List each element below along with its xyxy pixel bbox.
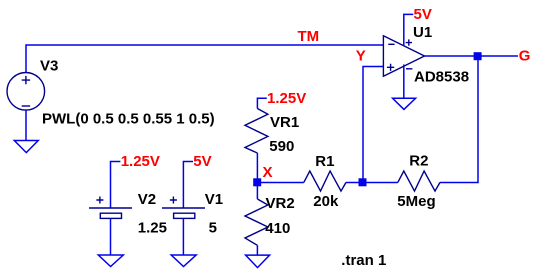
op-amp U1 triangle [383,36,424,76]
svg-text:TM: TM [298,28,320,45]
ground below U1 [393,98,416,109]
svg-text:5V: 5V [193,153,211,170]
value AD8538 [414,69,469,86]
battery V1 [162,197,205,219]
wire Y net: U1 + input down to R1/R2 junction [363,67,383,183]
junction at output node [474,52,482,60]
net label Y [356,48,366,65]
ground below VR2 [246,255,270,268]
label VR1 [270,114,299,131]
resistor R1 zigzag [304,171,346,191]
svg-text:20k: 20k [313,193,339,210]
wire V2 bottom to ground [110,218,112,255]
wire R1 to junction [346,182,363,184]
resistor VR1 zigzag [245,109,268,154]
label V3 [40,57,58,74]
net label 1.25V (VR1 top) [267,90,306,107]
svg-text:R1: R1 [315,153,334,170]
U1 V- mark [406,68,412,70]
U1 non-inverting input mark [387,64,394,71]
svg-text:410: 410 [265,220,290,237]
spice directive .tran 1 [341,252,386,269]
U1 V+ mark [406,39,412,45]
label R1 [315,153,334,170]
svg-text:V3: V3 [40,57,58,74]
value 20k [313,193,339,210]
svg-text:5V: 5V [414,6,432,23]
label V1 [205,191,223,208]
net label 5V [414,6,432,23]
net label 1.25V (V2 top) [121,153,160,170]
svg-text:U1: U1 [413,24,432,41]
ground below V3 [14,141,38,153]
svg-text:R2: R2 [409,153,428,170]
battery V2 [89,197,132,219]
junction node X [253,178,261,186]
label VR2 [266,195,295,212]
svg-text:1.25V: 1.25V [121,153,160,170]
ground below V2 [98,255,123,267]
svg-text:VR2: VR2 [266,195,295,212]
U1 inverting input mark [388,43,394,45]
wire V1 bottom to ground [182,218,184,255]
value PWL(0 0.5 0.5 0.55 1 0.5) [42,111,215,128]
label R2 [409,153,428,170]
label V2 [138,191,156,208]
net flag 1.25V stub above V2 [111,162,121,209]
svg-text:5: 5 [209,220,217,237]
svg-text:PWL(0 0.5 0.5 0.55 1 0.5): PWL(0 0.5 0.5 0.55 1 0.5) [42,111,215,128]
svg-text:.tran 1: .tran 1 [341,252,386,269]
net flag 1.25V stub above VR1 [257,98,266,108]
net label X [263,164,273,181]
wire junction to R2 [363,182,398,184]
wire U1 V- pin to ground [403,65,405,99]
wire TM net: V3 top to U1 inverting input [26,45,383,72]
label U1 [413,24,432,41]
wire V3 bottom to ground [25,110,27,140]
net label 5V (V1 top) [193,153,211,170]
value 410 [265,220,290,237]
svg-text:VR1: VR1 [270,114,299,131]
svg-text:590: 590 [269,138,294,155]
value 5 [209,220,217,237]
junction R1/R2/Y [359,178,367,186]
voltage source V3 [7,73,45,111]
svg-text:Y: Y [356,48,366,65]
wire U1 output to G [425,55,519,57]
value 1.25 [138,220,167,237]
resistor VR2 zigzag [245,199,268,245]
svg-text:X: X [263,164,273,181]
svg-text:V1: V1 [205,191,223,208]
svg-text:1.25V: 1.25V [267,90,306,107]
net label G [519,48,531,65]
wire VR1 bottom to node X [256,153,258,183]
svg-text:1.25: 1.25 [138,220,167,237]
ground below V1 [171,255,196,267]
value 5Meg [397,193,435,210]
net label TM [298,28,320,45]
net flag 5V stub above V1 [183,162,193,209]
wire VR2 bottom to ground [256,245,258,255]
wire U1 V+ pin to 5V flag [404,14,414,46]
wire feedback: output junction down to R2 [440,56,478,183]
resistor R2 zigzag [398,171,440,191]
wire node X to VR2 [256,183,258,200]
svg-text:5Meg: 5Meg [397,193,435,210]
svg-text:AD8538: AD8538 [414,69,469,86]
value 590 [269,138,294,155]
svg-text:G: G [519,48,531,65]
wire node X to R1 [257,182,303,184]
svg-text:V2: V2 [138,191,156,208]
